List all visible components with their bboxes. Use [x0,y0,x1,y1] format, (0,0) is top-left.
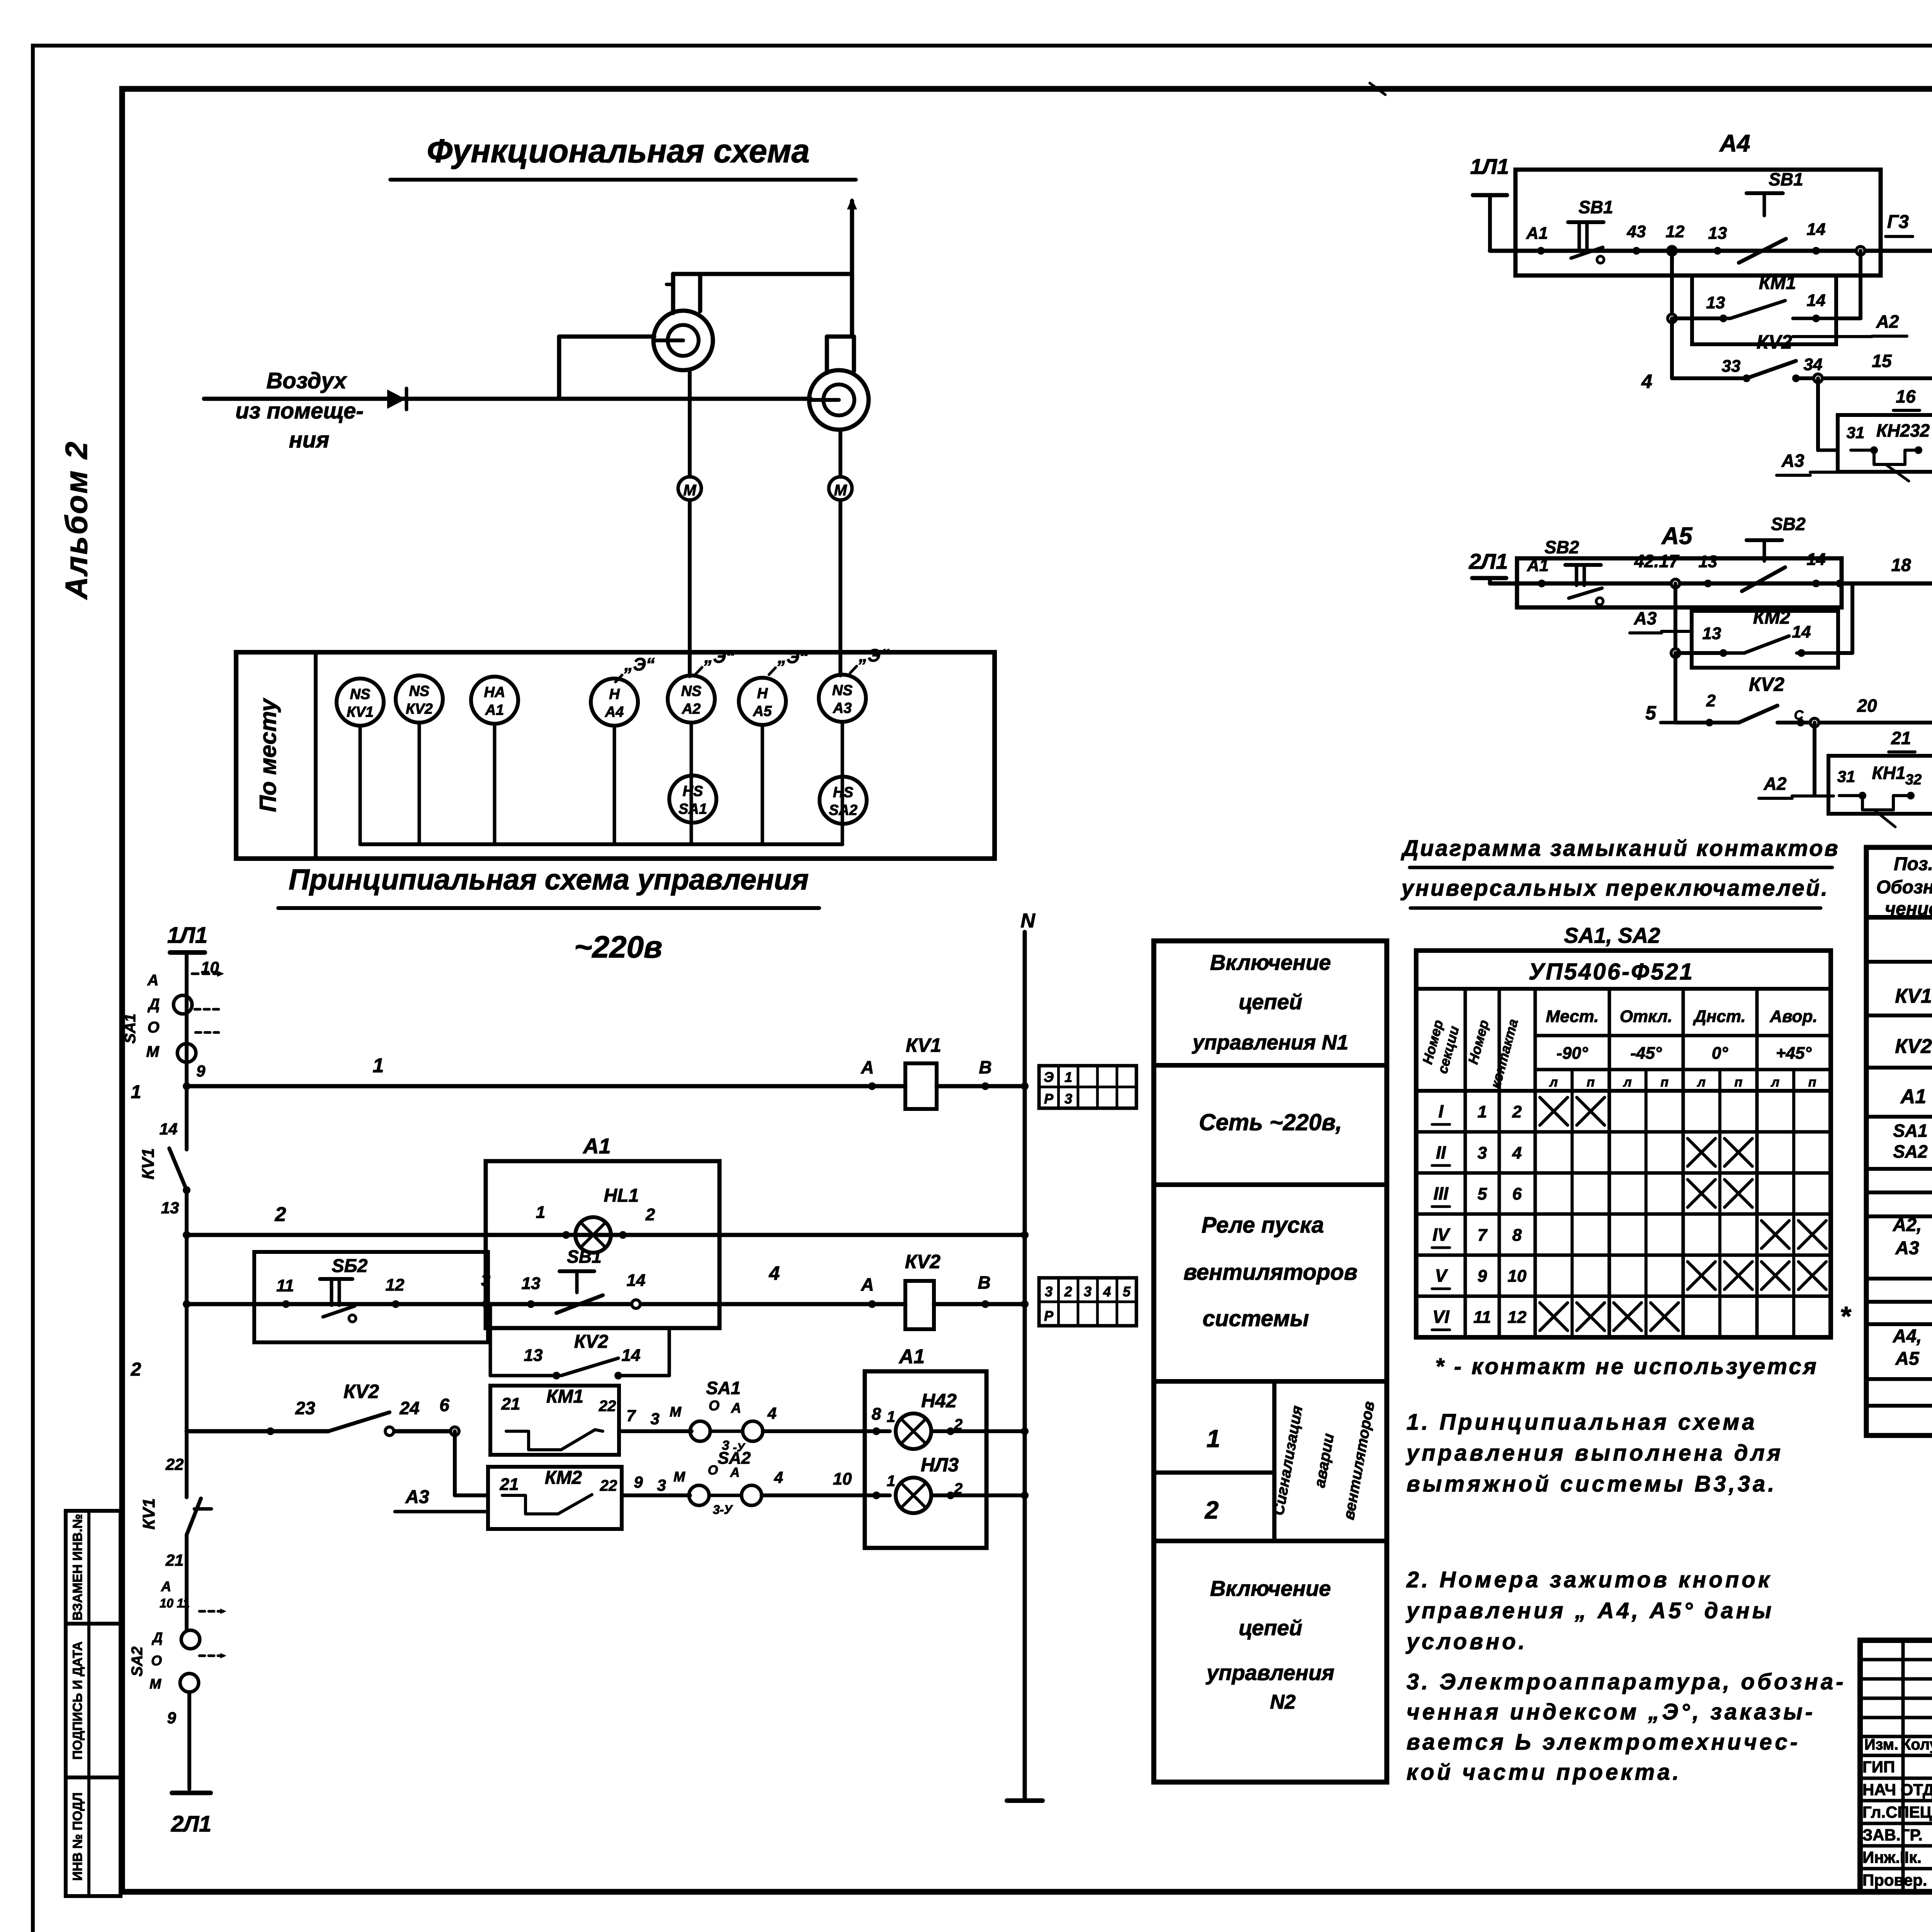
svg-text:условно.: условно. [1405,1629,1527,1654]
svg-text:23: 23 [295,1398,315,1418]
svg-text:1: 1 [1065,1069,1072,1085]
svg-text:Э: Э [1044,1069,1054,1085]
svg-text:11: 11 [1473,1308,1491,1327]
svg-text:2Л1: 2Л1 [1469,549,1508,573]
svg-text:22: 22 [599,1398,616,1415]
svg-text:4: 4 [767,1404,776,1422]
svg-text:22: 22 [600,1477,617,1494]
svg-text:вентиляторов: вентиляторов [1184,1260,1357,1285]
svg-text:N2: N2 [1270,1691,1296,1713]
svg-text:А1: А1 [1527,556,1549,575]
svg-text:КV2: КV2 [574,1332,609,1352]
svg-text:~220в: ~220в [574,930,663,964]
svg-text:12: 12 [1508,1308,1527,1327]
svg-text:Р: Р [1044,1091,1054,1107]
svg-text:33: 33 [1722,357,1741,376]
svg-text:3: 3 [1478,1143,1487,1162]
svg-text:л: л [1770,1075,1779,1090]
svg-text:УП5406-Ф521: УП5406-Ф521 [1529,959,1694,985]
svg-text:SВ1: SВ1 [1578,197,1613,217]
svg-text:Авор.: Авор. [1769,1007,1817,1026]
svg-text:М: М [670,1404,682,1420]
svg-text:Гл.СПЕЦ: Гл.СПЕЦ [1862,1803,1932,1821]
svg-text:КV1: КV1 [139,1498,158,1530]
svg-text:V: V [1435,1265,1448,1286]
svg-text:9: 9 [1478,1267,1487,1286]
svg-text:КV2: КV2 [1757,331,1792,353]
svg-text:14: 14 [1807,220,1826,239]
svg-text:5: 5 [1478,1185,1487,1204]
svg-text:А: А [861,1057,874,1077]
svg-text:3. Электроаппаратура, обозна-: 3. Электроаппаратура, обозна- [1406,1669,1846,1694]
svg-text:управления N1: управления N1 [1192,1031,1349,1054]
svg-text:А4: А4 [605,704,624,720]
svg-text:1: 1 [536,1203,545,1222]
svg-text:1. Принципиальная схема: 1. Принципиальная схема [1406,1410,1757,1435]
svg-text:14: 14 [622,1346,641,1365]
svg-text:л: л [1623,1075,1632,1090]
svg-text:14: 14 [1807,291,1826,310]
svg-text:NS: NS [409,683,430,699]
svg-text:13: 13 [1708,224,1727,243]
svg-text:Воздух: Воздух [266,368,347,393]
svg-text:3: 3 [1045,1284,1053,1299]
svg-text:I: I [1439,1101,1444,1121]
svg-text:М: М [673,1469,685,1485]
svg-text:М: М [146,1043,160,1060]
svg-text:КV2: КV2 [344,1381,379,1402]
svg-text:цепей: цепей [1239,990,1303,1014]
svg-text:управления „ А4, А5° даны: управления „ А4, А5° даны [1405,1598,1774,1623]
svg-text:Реле пуска: Реле пуска [1202,1213,1324,1238]
svg-text:-90°: -90° [1556,1044,1588,1063]
svg-text:1: 1 [887,1473,895,1490]
svg-text:„Э“: „Э“ [704,646,735,667]
svg-text:5: 5 [1123,1284,1131,1299]
svg-text:А4,: А4, [1893,1326,1922,1347]
svg-text:Функциональная схема: Функциональная схема [427,133,810,170]
svg-text:8: 8 [872,1405,881,1423]
svg-text:4: 4 [1103,1284,1111,1299]
svg-text:Н: Н [609,686,620,702]
svg-text:2: 2 [275,1203,286,1226]
svg-text:А: А [731,1400,741,1416]
svg-text:-45°: -45° [1630,1044,1662,1063]
svg-text:SА2: SА2 [1893,1141,1928,1162]
svg-text:Включение: Включение [1210,950,1331,975]
svg-text:NS: NS [832,682,853,699]
svg-text:ЗАВ.ГР.: ЗАВ.ГР. [1862,1826,1923,1844]
svg-text:*: * [1840,1301,1851,1331]
svg-text:SА1: SА1 [1893,1121,1927,1141]
svg-text:В: В [979,1057,992,1077]
svg-text:12: 12 [386,1276,405,1294]
svg-text:SА2: SА2 [718,1449,751,1468]
svg-text:О: О [708,1463,718,1478]
svg-text:1Л1: 1Л1 [1470,154,1509,179]
svg-text:15: 15 [1872,351,1892,371]
svg-text:24: 24 [399,1398,419,1418]
svg-text:А2,: А2, [1893,1215,1922,1235]
svg-text:КV2: КV2 [905,1251,940,1272]
svg-text:универсальных переключателей.: универсальных переключателей. [1400,876,1829,901]
svg-text:1: 1 [1206,1425,1220,1452]
svg-text:SВ1: SВ1 [1769,169,1803,189]
svg-text:14: 14 [160,1120,178,1138]
svg-text:3: 3 [657,1476,666,1494]
svg-text:8: 8 [1512,1226,1522,1245]
svg-text:А5: А5 [753,703,772,719]
svg-text:Днст.: Днст. [1692,1007,1746,1026]
svg-text:VI: VI [1432,1307,1450,1327]
svg-text:п: п [1587,1075,1595,1090]
svg-text:4: 4 [1512,1143,1522,1162]
svg-text:Г3: Г3 [1887,212,1909,232]
svg-text:ния: ния [289,427,330,452]
svg-text:НL1: НL1 [604,1185,639,1206]
svg-text:п: п [1808,1075,1816,1090]
svg-text:Н42: Н42 [921,1390,957,1412]
svg-text:ченная индексом „Э°, заказы-: ченная индексом „Э°, заказы- [1406,1699,1815,1725]
svg-text:9: 9 [167,1709,176,1727]
svg-text:1Л1: 1Л1 [167,923,207,948]
svg-text:9: 9 [196,1062,206,1080]
svg-text:А2: А2 [1876,311,1899,332]
svg-text:М: М [150,1676,162,1692]
svg-text:13: 13 [522,1274,541,1293]
svg-text:Принципиальная схема управ: Принципиальная схема управления [289,863,809,896]
svg-text:Д: Д [151,1629,163,1645]
svg-text:31: 31 [1837,767,1855,786]
svg-text:10: 10 [1508,1267,1527,1286]
svg-text:КV1: КV1 [139,1148,158,1180]
svg-text:„Э“: „Э“ [858,645,889,665]
svg-text:21: 21 [165,1551,184,1569]
svg-text:КV2: КV2 [406,701,433,717]
svg-text:4: 4 [1641,371,1652,392]
svg-text:Инж.IIк.: Инж.IIк. [1862,1848,1922,1866]
svg-text:Н: Н [757,685,768,702]
svg-text:НS: НS [833,784,854,801]
svg-text:* - контакт не используется: * - контакт не используется [1435,1354,1818,1379]
svg-text:из помеще-: из помеще- [235,398,364,423]
svg-text:SА1: SА1 [679,801,707,817]
svg-text:2: 2 [1512,1102,1522,1121]
svg-text:43: 43 [1627,222,1646,241]
svg-text:13: 13 [1706,293,1725,312]
svg-text:NS: NS [350,686,371,702]
svg-text:3-У: 3-У [713,1503,733,1517]
svg-text:Р: Р [1044,1308,1054,1324]
svg-text:1: 1 [1478,1102,1487,1121]
svg-text:О: О [151,1653,162,1668]
svg-text:IV: IV [1432,1225,1451,1245]
svg-text:КV1: КV1 [906,1034,941,1056]
svg-text:О: О [709,1398,719,1413]
svg-text:4: 4 [769,1262,780,1284]
svg-text:НАЧ ОТД.: НАЧ ОТД. [1862,1781,1932,1799]
svg-text:управления выполнена для: управления выполнена для [1405,1440,1783,1466]
svg-text:КV2: КV2 [1749,673,1784,695]
svg-text:31: 31 [1847,423,1865,442]
svg-text:Мест.: Мест. [1546,1007,1599,1026]
svg-text:А1: А1 [1900,1085,1926,1108]
svg-text:КМ1: КМ1 [1759,273,1796,293]
svg-text:А3: А3 [833,700,852,716]
svg-text:ГИП: ГИП [1862,1758,1895,1776]
svg-text:3: 3 [481,1271,490,1290]
svg-text:А1: А1 [898,1345,925,1368]
svg-text:А3: А3 [1781,451,1804,471]
svg-text:9: 9 [634,1473,643,1491]
svg-text:11: 11 [276,1276,294,1295]
svg-text:SВ1: SВ1 [567,1247,601,1267]
svg-text:14: 14 [1792,622,1811,641]
svg-text:Сеть ~220в,: Сеть ~220в, [1199,1109,1342,1135]
svg-text:А2: А2 [682,701,701,717]
svg-text:21: 21 [1891,728,1911,748]
svg-text:2Л1: 2Л1 [171,1811,211,1837]
svg-text:КV2: КV2 [1895,1035,1932,1058]
svg-text:М: М [834,482,847,499]
svg-text:2: 2 [1204,1496,1219,1524]
svg-text:13: 13 [524,1346,543,1365]
svg-text:л: л [1697,1075,1706,1090]
svg-text:2: 2 [645,1205,655,1224]
svg-text:0°: 0° [1712,1044,1728,1063]
svg-text:системы: системы [1202,1306,1309,1331]
svg-text:N: N [1020,910,1036,932]
svg-text:21: 21 [500,1475,519,1494]
svg-text:„Э“: „Э“ [777,647,808,667]
svg-text:НS: НS [683,783,703,799]
svg-text:14: 14 [627,1271,646,1290]
svg-text:6: 6 [439,1395,449,1415]
svg-text:А2: А2 [1764,774,1787,794]
svg-text:+45°: +45° [1776,1044,1812,1063]
svg-text:SВ2: SВ2 [1771,514,1806,534]
svg-text:32: 32 [1905,772,1922,788]
svg-text:20: 20 [1857,696,1877,716]
svg-text:2: 2 [1706,691,1716,710]
svg-text:вытяжной системы В3,3а.: вытяжной системы В3,3а. [1406,1471,1777,1497]
svg-text:34: 34 [1804,355,1823,374]
svg-text:КV1: КV1 [347,704,374,720]
svg-text:КМ1: КМ1 [546,1386,583,1407]
svg-text:Колуч: Колуч [1901,1736,1932,1753]
svg-text:Поз.: Поз. [1894,854,1932,874]
svg-text:1: 1 [131,1082,141,1102]
svg-text:А1: А1 [1526,224,1548,243]
svg-text:По месту: По месту [255,698,281,812]
svg-text:А: А [147,972,159,989]
svg-text:ВЗАМЕН ИНВ.№: ВЗАМЕН ИНВ.№ [70,1514,85,1621]
svg-text:п: п [1735,1075,1743,1090]
svg-text:А3: А3 [1895,1238,1919,1259]
svg-text:КМ2: КМ2 [545,1468,582,1488]
svg-text:А5: А5 [1661,523,1693,549]
svg-text:Обозна-: Обозна- [1876,877,1932,898]
svg-text:5: 5 [1645,702,1656,724]
svg-text:SА2: SА2 [829,802,857,818]
svg-text:III: III [1434,1184,1449,1204]
svg-text:А1: А1 [485,702,504,718]
svg-text:А1: А1 [582,1134,611,1158]
svg-text:14: 14 [1807,550,1826,569]
svg-text:1: 1 [887,1408,895,1425]
svg-text:В: В [978,1272,990,1293]
svg-text:SА1, SА2: SА1, SА2 [1564,923,1660,947]
svg-text:3: 3 [1065,1091,1072,1107]
svg-text:6: 6 [1512,1185,1522,1204]
svg-text:А5: А5 [1895,1349,1920,1369]
svg-text:НЛ3: НЛ3 [921,1454,959,1476]
svg-text:М: М [683,482,697,499]
svg-text:2: 2 [1064,1284,1072,1299]
svg-text:Диаграмма замыканий контакто: Диаграмма замыканий контактов [1400,836,1839,861]
svg-text:SВ2: SВ2 [1544,537,1579,557]
svg-text:А4: А4 [1719,130,1750,157]
svg-text:SА2: SА2 [129,1646,146,1677]
svg-text:4: 4 [774,1468,783,1486]
svg-text:А3: А3 [405,1487,429,1507]
svg-text:12: 12 [1666,222,1685,241]
svg-text:13: 13 [1702,624,1721,643]
svg-text:Провер.: Провер. [1862,1871,1927,1889]
svg-text:А3: А3 [1634,608,1657,628]
svg-text:NS: NS [681,683,702,699]
svg-text:Включение: Включение [1210,1576,1331,1600]
svg-text:3: 3 [1084,1284,1092,1299]
svg-text:42.17: 42.17 [1634,551,1680,571]
svg-text:Откл.: Откл. [1620,1007,1672,1026]
svg-text:А: А [861,1274,874,1294]
svg-text:16: 16 [1896,386,1916,406]
svg-text:10: 10 [833,1469,852,1488]
svg-text:13: 13 [161,1199,179,1217]
svg-text:18: 18 [1891,555,1911,575]
svg-text:О: О [147,1019,159,1036]
svg-text:7: 7 [626,1406,636,1425]
svg-text:SА1: SА1 [706,1378,740,1398]
svg-text:13: 13 [1699,552,1718,571]
svg-text:3: 3 [650,1410,659,1428]
svg-text:10 11: 10 11 [160,1596,190,1610]
svg-text:II: II [1436,1142,1446,1162]
svg-text:21: 21 [501,1395,520,1413]
svg-text:2: 2 [131,1359,141,1380]
svg-text:чение: чение [1885,899,1932,919]
svg-text:„Э“: „Э“ [624,654,655,674]
svg-text:КН1: КН1 [1872,763,1905,783]
svg-text:Альбом 2: Альбом 2 [59,440,94,600]
svg-text:цепей: цепей [1239,1616,1303,1640]
svg-text:п: п [1660,1075,1668,1090]
svg-text:А: А [161,1578,171,1594]
svg-text:ИНВ № ПОДЛ: ИНВ № ПОДЛ [70,1793,85,1881]
svg-text:2. Номера зажитов кнопок: 2. Номера зажитов кнопок [1406,1567,1772,1592]
svg-text:управления: управления [1206,1660,1335,1685]
svg-text:22: 22 [165,1455,184,1473]
svg-text:КМ2: КМ2 [1753,607,1790,628]
svg-text:НА: НА [484,684,505,701]
svg-text:1: 1 [373,1054,384,1077]
svg-text:ПОДПИСЬ И ДАТА: ПОДПИСЬ И ДАТА [70,1641,85,1760]
svg-text:КV1: КV1 [1895,985,1932,1007]
svg-text:7: 7 [1478,1226,1488,1245]
svg-text:л: л [1549,1075,1558,1090]
svg-text:вается Ь электротехничес-: вается Ь электротехничес- [1406,1730,1800,1755]
svg-text:SБ2: SБ2 [332,1256,368,1276]
svg-text:Изм.: Изм. [1864,1736,1898,1753]
svg-text:SА1: SА1 [122,1014,139,1044]
svg-text:Д: Д [148,996,160,1013]
svg-text:кой части проекта.: кой части проекта. [1406,1760,1682,1785]
svg-text:КН232: КН232 [1876,420,1930,440]
